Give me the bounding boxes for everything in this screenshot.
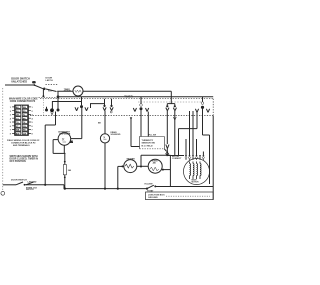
svg-text:BW: BW [16,134,19,136]
svg-text:SWITCH: SWITCH [26,189,34,191]
svg-text:8: 8 [32,134,34,136]
svg-text:WH: WH [23,107,27,109]
svg-text:HEATER: HEATER [127,158,136,161]
svg-text:AND TERMINALS: AND TERMINALS [13,144,30,147]
svg-text:MOTOR: MOTOR [64,91,72,93]
svg-text:CODE CONNECTOR P3: CODE CONNECTOR P3 [10,101,36,103]
svg-text:8: 8 [10,134,12,136]
svg-text:7: 7 [10,130,12,132]
svg-text:3: 3 [10,115,12,117]
svg-text:1: 1 [32,107,34,109]
svg-text:7: 7 [32,130,34,132]
svg-text:TIMER: TIMER [124,94,132,98]
svg-text:N.O.: N.O. [48,91,53,93]
svg-text:5: 5 [10,122,12,124]
svg-text:BK: BK [98,122,101,124]
svg-text:OFF POSITION: OFF POSITION [10,161,27,163]
svg-text:N.O. HELD: N.O. HELD [142,145,153,147]
svg-text:P1: P1 [70,142,72,144]
svg-text:2: 2 [10,111,12,113]
svg-text:5: 5 [32,122,34,124]
svg-text:GW: GW [23,134,27,136]
svg-text:LATCH: LATCH [46,79,54,82]
svg-text:SOLENOID: SOLENOID [111,134,122,136]
svg-text:CO: CO [33,82,36,84]
svg-text:4: 4 [32,117,34,120]
svg-text:LATCHED: LATCHED [28,181,38,184]
svg-text:CONNECT: CONNECT [172,158,182,160]
svg-text:GROUND: GROUND [148,197,158,199]
svg-text:WB: WB [16,130,20,132]
svg-text:MOTOR: MOTOR [192,182,200,184]
svg-text:SENSOR SW: SENSOR SW [142,142,156,144]
svg-text:HI-LIMIT: HI-LIMIT [145,184,154,186]
svg-text:2: 2 [32,111,34,113]
svg-text:UNLATCHED: UNLATCHED [11,79,27,83]
svg-text:6: 6 [32,126,34,128]
svg-text:TSTAT: TSTAT [147,189,154,192]
svg-text:6: 6 [10,126,12,128]
svg-text:DOOR SWITCH: DOOR SWITCH [11,179,27,181]
svg-text:4: 4 [10,117,12,120]
svg-text:1: 1 [10,107,12,109]
svg-text:FILL SW: FILL SW [149,135,157,137]
svg-text:240: 240 [68,169,72,172]
svg-text:DISPENSER: DISPENSER [59,134,71,136]
